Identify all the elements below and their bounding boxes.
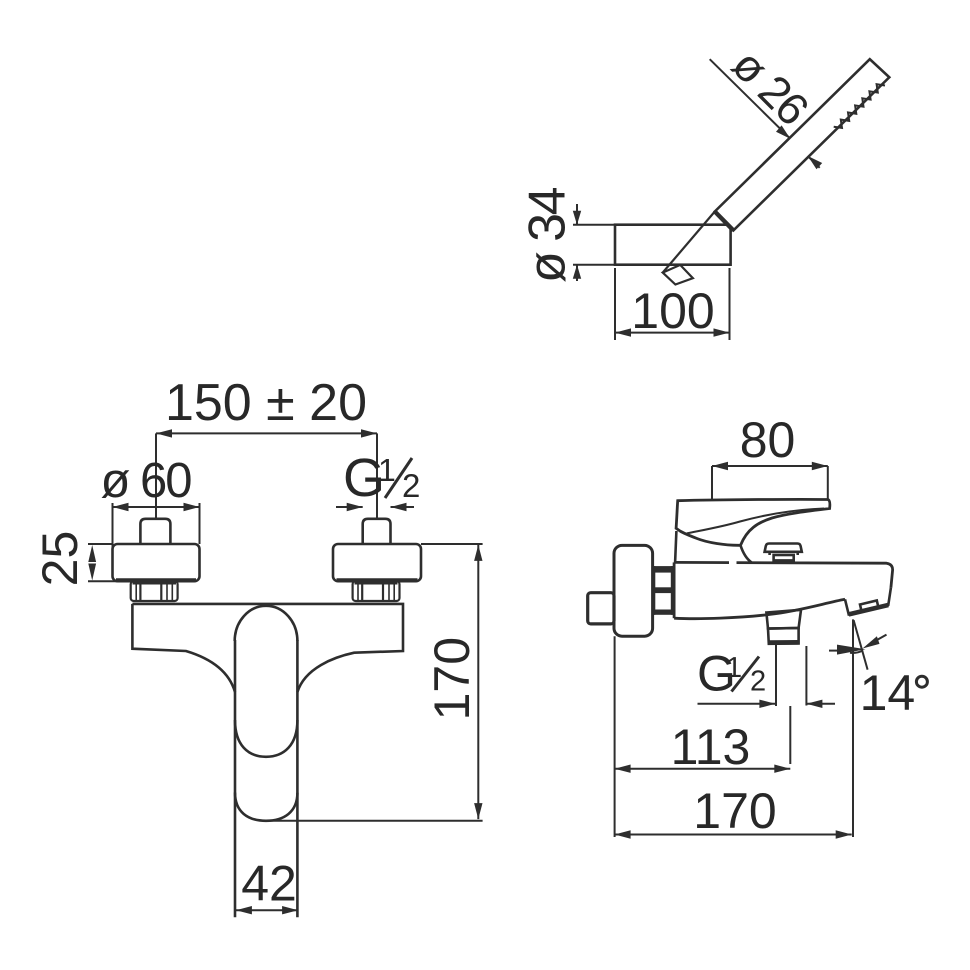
label ø60 [100, 454, 191, 508]
connection nut stack [653, 566, 673, 615]
svg-text:170: 170 [693, 783, 776, 839]
svg-text:2: 2 [750, 666, 766, 698]
label 14° [860, 665, 928, 721]
dimension 150±20 line [156, 429, 377, 519]
label 113 [671, 719, 751, 775]
dimension 80 [712, 462, 828, 519]
cartridge dome under handle [675, 531, 751, 562]
dimension 100 line [615, 328, 730, 336]
mixer body side outline [674, 562, 893, 618]
pipe centerline [789, 706, 791, 764]
svg-text:ø 60: ø 60 [100, 454, 191, 508]
wall extension line [614, 636, 616, 837]
dimension 42 [236, 906, 298, 914]
hose cone line from wand tip to diamond [663, 212, 715, 273]
dimension 170 (front) [270, 544, 483, 821]
dimension 170 (side) [615, 830, 852, 838]
wand grip serration [834, 84, 885, 128]
dimension ø60 [113, 503, 200, 578]
label 170 (front) [424, 637, 480, 720]
label 42 [241, 856, 297, 912]
body bottom arc [235, 793, 297, 821]
dimension 100 extension lines [615, 268, 730, 340]
left mounting nut [131, 581, 178, 601]
label ø34 [519, 187, 577, 283]
wall stub [588, 593, 614, 624]
svg-text:42: 42 [241, 856, 297, 912]
svg-text:100: 100 [631, 283, 714, 339]
right escutcheon [333, 544, 421, 581]
right mounting nut [353, 581, 400, 601]
label 25 [32, 531, 88, 587]
svg-text:25: 25 [32, 531, 88, 587]
svg-text:14: 14 [860, 665, 916, 721]
shower hose connector [766, 610, 801, 644]
dimension ø26 line [710, 59, 823, 169]
svg-text:150 ± 20: 150 ± 20 [165, 374, 367, 432]
hand shower wand [715, 59, 890, 230]
dimension G1/2 (side) extension lines [698, 645, 836, 708]
spout outlet [845, 588, 891, 615]
label 100 [631, 283, 714, 339]
dimension ø34 extension lines [573, 225, 615, 265]
lever handle (side) [676, 499, 830, 545]
dimension G1/2 stub arrows (front) [336, 503, 414, 511]
outlet extension line [852, 619, 854, 837]
bracket hook diamond [663, 265, 693, 285]
wall bracket body [615, 225, 731, 265]
dimension 113 [615, 765, 791, 773]
right supply stub [363, 519, 391, 544]
label 80 [740, 412, 796, 468]
label G1/2 (front) [343, 448, 420, 508]
svg-text:ø 34: ø 34 [519, 187, 577, 283]
dimension ø34 arrows [573, 204, 581, 281]
wall plate [614, 545, 653, 636]
svg-text:113: 113 [671, 719, 751, 775]
left supply stub [140, 519, 170, 544]
body top edge gap under dome [729, 561, 737, 564]
dimension 25 [88, 544, 118, 581]
handle pill bottom arc [235, 720, 297, 757]
svg-text:1: 1 [378, 452, 396, 488]
14 degree slant line [854, 620, 868, 670]
handle pill sides (front) [235, 640, 297, 917]
label G1/2 (side) [697, 646, 766, 702]
diverter knob [765, 544, 802, 563]
14 degree angle arrows [829, 635, 887, 655]
svg-text:80: 80 [740, 412, 796, 468]
left escutcheon [113, 544, 200, 581]
svg-text:170: 170 [424, 637, 480, 720]
lever crease line [687, 509, 824, 534]
mixer body front outline [132, 604, 403, 692]
label ø26 [722, 39, 818, 135]
handle pill top arc [235, 606, 298, 641]
svg-text:2: 2 [402, 467, 420, 504]
label 170 (side) [693, 783, 776, 839]
label 150 ± 20 [165, 374, 367, 432]
